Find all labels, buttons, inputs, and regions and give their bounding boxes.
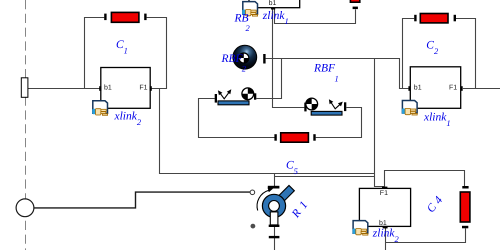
dashed reference axis line <box>25 0 27 250</box>
spring top-right (cut at top) <box>350 0 359 9</box>
wire: xlink1 F1 to right edge <box>463 88 500 90</box>
wire: C4 bottom to zlink2 b1 <box>386 228 466 242</box>
wire: C1 right lead down to xlink2 F1 <box>147 18 167 89</box>
wire: zlink2 b1 down off canvas <box>385 227 387 250</box>
svg-text:F1: F1 <box>449 84 457 91</box>
wire: R1 top up to rail A <box>274 174 276 187</box>
svg-text:b1: b1 <box>104 83 112 91</box>
hand icon of xlink1 <box>402 101 417 116</box>
svg-text:b1: b1 <box>379 219 387 227</box>
wire: fixed white rect to xlink2 b1 <box>28 88 100 90</box>
wire: R1 top rail A2 to zlink2 F1 <box>275 176 375 178</box>
hand icon of xlink2 <box>92 101 107 116</box>
wire: C1 left lead down to fixed rail <box>85 18 105 89</box>
svg-text:b1: b1 <box>414 83 422 91</box>
box zlink1 (cut at top) <box>249 0 300 10</box>
svg-text:b1: b1 <box>269 0 277 7</box>
wire: ground circle to R1 support (black) <box>34 192 250 208</box>
box xlink2 <box>99 68 152 109</box>
wire: C2 left lead to xlink1 b1 <box>403 19 415 89</box>
svg-text:RBF: RBF <box>313 63 336 75</box>
svg-text:1: 1 <box>335 74 339 84</box>
wire: branch down to zlink2 F1 <box>375 59 385 189</box>
wire: C2 right lead down to xlink1 F1 rail <box>456 19 476 89</box>
wire: zlink2 F1 up and over to C4 top <box>385 171 465 187</box>
svg-text:RBF: RBF <box>221 53 244 65</box>
svg-text:F1: F1 <box>139 84 147 91</box>
spring C1 <box>104 12 146 22</box>
label C4 rotated <box>425 194 446 216</box>
wire: C5 right up to body2 right <box>316 108 362 138</box>
spring C5 <box>274 133 315 142</box>
box zlink2 <box>359 187 410 229</box>
wire: zlink1 b1 down to body2 left <box>273 9 305 108</box>
wire: xlink2 F1 junction down (long bottom rail A) <box>160 89 375 174</box>
support connector circle of R1 <box>250 190 255 195</box>
ground joint circle <box>16 199 34 217</box>
spring C2 <box>414 14 456 23</box>
box xlink1 <box>408 67 462 109</box>
label R1 rotated <box>289 199 310 221</box>
gray dot marker <box>251 224 256 229</box>
fixed anchor white rect <box>21 78 28 98</box>
wire: RBF2 sphere to xlink1 b1 (long top rail) <box>266 59 409 89</box>
wire: branch down to body1 right stub <box>256 59 281 99</box>
wire: R1 shaft down off canvas <box>274 227 276 250</box>
hand icon of zlink2 <box>353 221 368 236</box>
revolute joint R1 <box>257 185 294 238</box>
svg-text:2: 2 <box>242 64 247 74</box>
body RBF2 sphere <box>233 45 266 69</box>
planar body 2 (bar with CM left, mirrored) <box>304 98 346 115</box>
wire: zlink1 b1 to top-right red spring <box>275 9 356 24</box>
wire: body1 left down to C5 left <box>199 99 275 138</box>
hand icon of zlink1 <box>242 2 257 17</box>
planar body 1 (bar with CM right) <box>215 88 257 105</box>
damper C4 vertical <box>460 186 470 228</box>
svg-text:F1: F1 <box>380 190 388 197</box>
